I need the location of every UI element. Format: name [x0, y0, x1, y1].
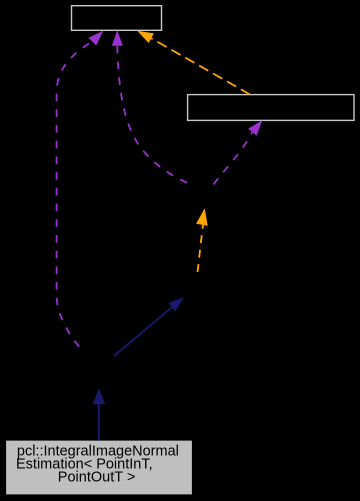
edge E6: dashed orange template-relation arrow B2 -> B1	[137, 31, 250, 95]
edge E1: solid midnightblue inheritance arrow B3 -> invisible node N1 (vertical)	[93, 388, 105, 440]
svg-text:PointOutT >: PointOutT >	[58, 469, 136, 485]
node B1: empty class box (top)	[72, 6, 162, 31]
node B3: pcl::IntegralImageNormalEstimation box	[6, 440, 193, 495]
edge E7: dashed orange template-relation arrow N2 -> N3 (vertical)	[196, 208, 208, 272]
edge E2: solid midnightblue inheritance arrow N1 -> invisible node N2 (diagonal)	[114, 297, 184, 356]
node B2: empty class box (right)	[188, 95, 354, 121]
edge E5: dashed darkorchid usage arrow N3 -> B2	[214, 120, 263, 184]
edge E4: dashed darkorchid usage arrow N3 -> B1 (middle curve)	[112, 30, 189, 183]
edge E3: dashed darkorchid usage arrow N1 -> B1 (long left curve)	[57, 31, 104, 350]
